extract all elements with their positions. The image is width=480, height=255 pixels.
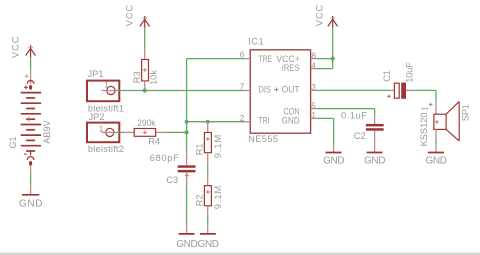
svg-text:JP2: JP2 xyxy=(89,112,105,122)
pin R3 top xyxy=(144,49,146,60)
svg-text:bleistift2: bleistift2 xyxy=(88,144,124,154)
pin mark plus (SP1) xyxy=(429,103,433,107)
resistor R2 xyxy=(204,186,211,206)
svg-text:AB9V: AB9V xyxy=(42,120,52,144)
svg-text:1: 1 xyxy=(311,110,316,120)
pin stub 2 xyxy=(245,121,250,123)
pin C2 top xyxy=(374,116,376,124)
origin cross SP1 xyxy=(435,120,439,124)
wire C3 to GND xyxy=(186,182,188,223)
svg-text:0.1uF: 0.1uF xyxy=(341,111,367,121)
svg-text:3: 3 xyxy=(311,82,316,92)
svg-text:8: 8 xyxy=(311,50,316,60)
pin stub 1 xyxy=(311,117,317,119)
svg-text:1: 1 xyxy=(420,106,430,111)
pin SP1 minus xyxy=(435,129,437,137)
wire CON to C2 xyxy=(317,109,375,116)
pin stub 5 xyxy=(311,108,317,110)
pin stub 6 xyxy=(245,58,250,60)
pin battery plus xyxy=(30,69,32,84)
svg-text:SP1: SP1 xyxy=(460,104,470,121)
svg-text:10uF: 10uF xyxy=(405,62,415,83)
pin C2 bottom to GND xyxy=(374,131,376,152)
svg-text:C3: C3 xyxy=(166,175,178,185)
battery G1 AB9V xyxy=(21,74,41,166)
wire to IC1 TRE xyxy=(187,58,246,60)
wire pin 8 xyxy=(317,58,333,60)
wire pin 4 riser xyxy=(317,59,333,69)
resistor R3 xyxy=(142,60,149,81)
ground symbol GND (C2) xyxy=(367,152,383,154)
supply symbol VCC (R3 column) xyxy=(140,16,150,28)
pin stub 3 xyxy=(311,89,317,91)
svg-text:C2: C2 xyxy=(354,131,366,141)
pin JP1 xyxy=(102,90,116,92)
pin R1 top xyxy=(207,122,209,133)
svg-text:GND: GND xyxy=(364,156,386,167)
svg-text:10k: 10k xyxy=(149,70,159,85)
pin C3 bottom xyxy=(186,172,188,182)
connector JP2 xyxy=(87,123,119,143)
pin R4 left xyxy=(124,131,135,133)
svg-text:DIS: DIS xyxy=(259,85,272,95)
svg-text:GND: GND xyxy=(426,156,448,167)
svg-text:OUT: OUT xyxy=(282,85,300,95)
wire TRE net vertical xyxy=(186,59,188,155)
supply symbol VCC (IC column) xyxy=(328,16,338,28)
pin battery minus xyxy=(30,166,32,174)
ground symbol GND (C3) xyxy=(179,223,195,234)
wire R2 to GND xyxy=(207,217,209,226)
speaker SP1 xyxy=(434,102,459,141)
pin R2 top xyxy=(207,174,209,185)
svg-text:/RES: /RES xyxy=(282,63,300,73)
svg-text:TRE: TRE xyxy=(259,54,273,64)
bottom separator line xyxy=(0,251,480,254)
svg-text:GND: GND xyxy=(176,239,198,250)
capacitor C2 xyxy=(366,124,384,131)
svg-text:9.1M: 9.1M xyxy=(213,135,223,159)
svg-text:VCC: VCC xyxy=(315,5,325,27)
pin JP2 xyxy=(102,131,115,133)
capacitor C1 xyxy=(387,83,406,99)
svg-text:GND: GND xyxy=(323,156,345,167)
svg-text:IC1: IC1 xyxy=(248,36,264,46)
capacitor C3 xyxy=(178,165,196,177)
svg-text:4: 4 xyxy=(311,60,316,70)
junction TRI net at vertical xyxy=(185,120,189,124)
wire OUT to C1 xyxy=(317,89,391,91)
svg-text:VCC: VCC xyxy=(124,5,134,27)
pin R4 right xyxy=(156,131,165,133)
svg-text:6: 6 xyxy=(240,50,245,60)
junction TRI net at R1 xyxy=(206,120,210,124)
svg-text:GND: GND xyxy=(198,239,220,250)
svg-text:TRI: TRI xyxy=(259,116,270,126)
supply symbol VCC (battery column) xyxy=(26,45,36,57)
svg-text:2: 2 xyxy=(240,113,245,123)
ground symbol GND (SP1) xyxy=(428,145,444,153)
pin C3 top xyxy=(186,155,188,166)
svg-text:1: 1 xyxy=(104,80,109,90)
svg-text:290k: 290k xyxy=(137,118,155,128)
pin stub 4 xyxy=(311,68,317,70)
wire pin 1 to GND xyxy=(317,118,334,144)
pin C1 right xyxy=(406,89,412,91)
svg-text:R3: R3 xyxy=(132,71,142,83)
wire VCC to pin 8 xyxy=(332,28,334,59)
junction R4 net xyxy=(185,130,189,134)
svg-text:9.1M: 9.1M xyxy=(213,186,223,210)
svg-text:R2: R2 xyxy=(194,194,204,206)
pin C1 left xyxy=(390,89,394,91)
pin stub 8 xyxy=(311,58,317,60)
pin R3 bottom xyxy=(144,81,146,91)
ground symbol GND (R2) xyxy=(200,226,216,234)
pin R1 bottom xyxy=(207,153,209,164)
pin SP1 plus xyxy=(435,100,437,114)
wire C1 to SP1 xyxy=(412,90,436,100)
ground symbol GND (battery) xyxy=(22,184,39,195)
wire R4 to TRI net xyxy=(165,131,187,133)
junction R3/DIS xyxy=(143,88,147,92)
svg-text:VCC: VCC xyxy=(11,36,21,58)
svg-text:C1: C1 xyxy=(382,70,392,82)
resistor R4 xyxy=(134,129,155,137)
connector JP1 xyxy=(87,81,119,102)
svg-text:R4: R4 xyxy=(148,136,160,146)
pin R2 bottom xyxy=(207,206,209,217)
wire VCC to R3 xyxy=(144,28,146,49)
svg-text:NE555: NE555 xyxy=(248,134,278,144)
wire SP1 to GND xyxy=(435,138,437,145)
wire R1 to R2 xyxy=(207,164,209,175)
svg-text:680pF: 680pF xyxy=(150,153,179,163)
resistor R1 xyxy=(204,133,211,153)
wire to IC1 TRI xyxy=(187,121,246,123)
wire VCC to battery plus xyxy=(30,57,32,69)
svg-text:5: 5 xyxy=(311,100,316,110)
junction VCC/RES xyxy=(331,57,335,61)
svg-text:GND: GND xyxy=(282,116,300,126)
op-amp IC1 body xyxy=(250,50,310,133)
svg-text:JP1: JP1 xyxy=(88,69,104,79)
svg-text:7: 7 xyxy=(240,81,245,91)
wire JP2 to R4 xyxy=(115,131,124,133)
svg-text:G1: G1 xyxy=(8,137,18,149)
pin stub 7 xyxy=(245,90,250,92)
svg-text:R1: R1 xyxy=(194,143,204,155)
ground symbol GND (IC1) xyxy=(326,145,342,153)
wire battery minus to GND xyxy=(30,173,32,184)
svg-text:GND: GND xyxy=(19,198,43,209)
svg-text:KSS120: KSS120 xyxy=(419,112,429,146)
wire JP1 to IC1 DIS xyxy=(115,90,245,92)
